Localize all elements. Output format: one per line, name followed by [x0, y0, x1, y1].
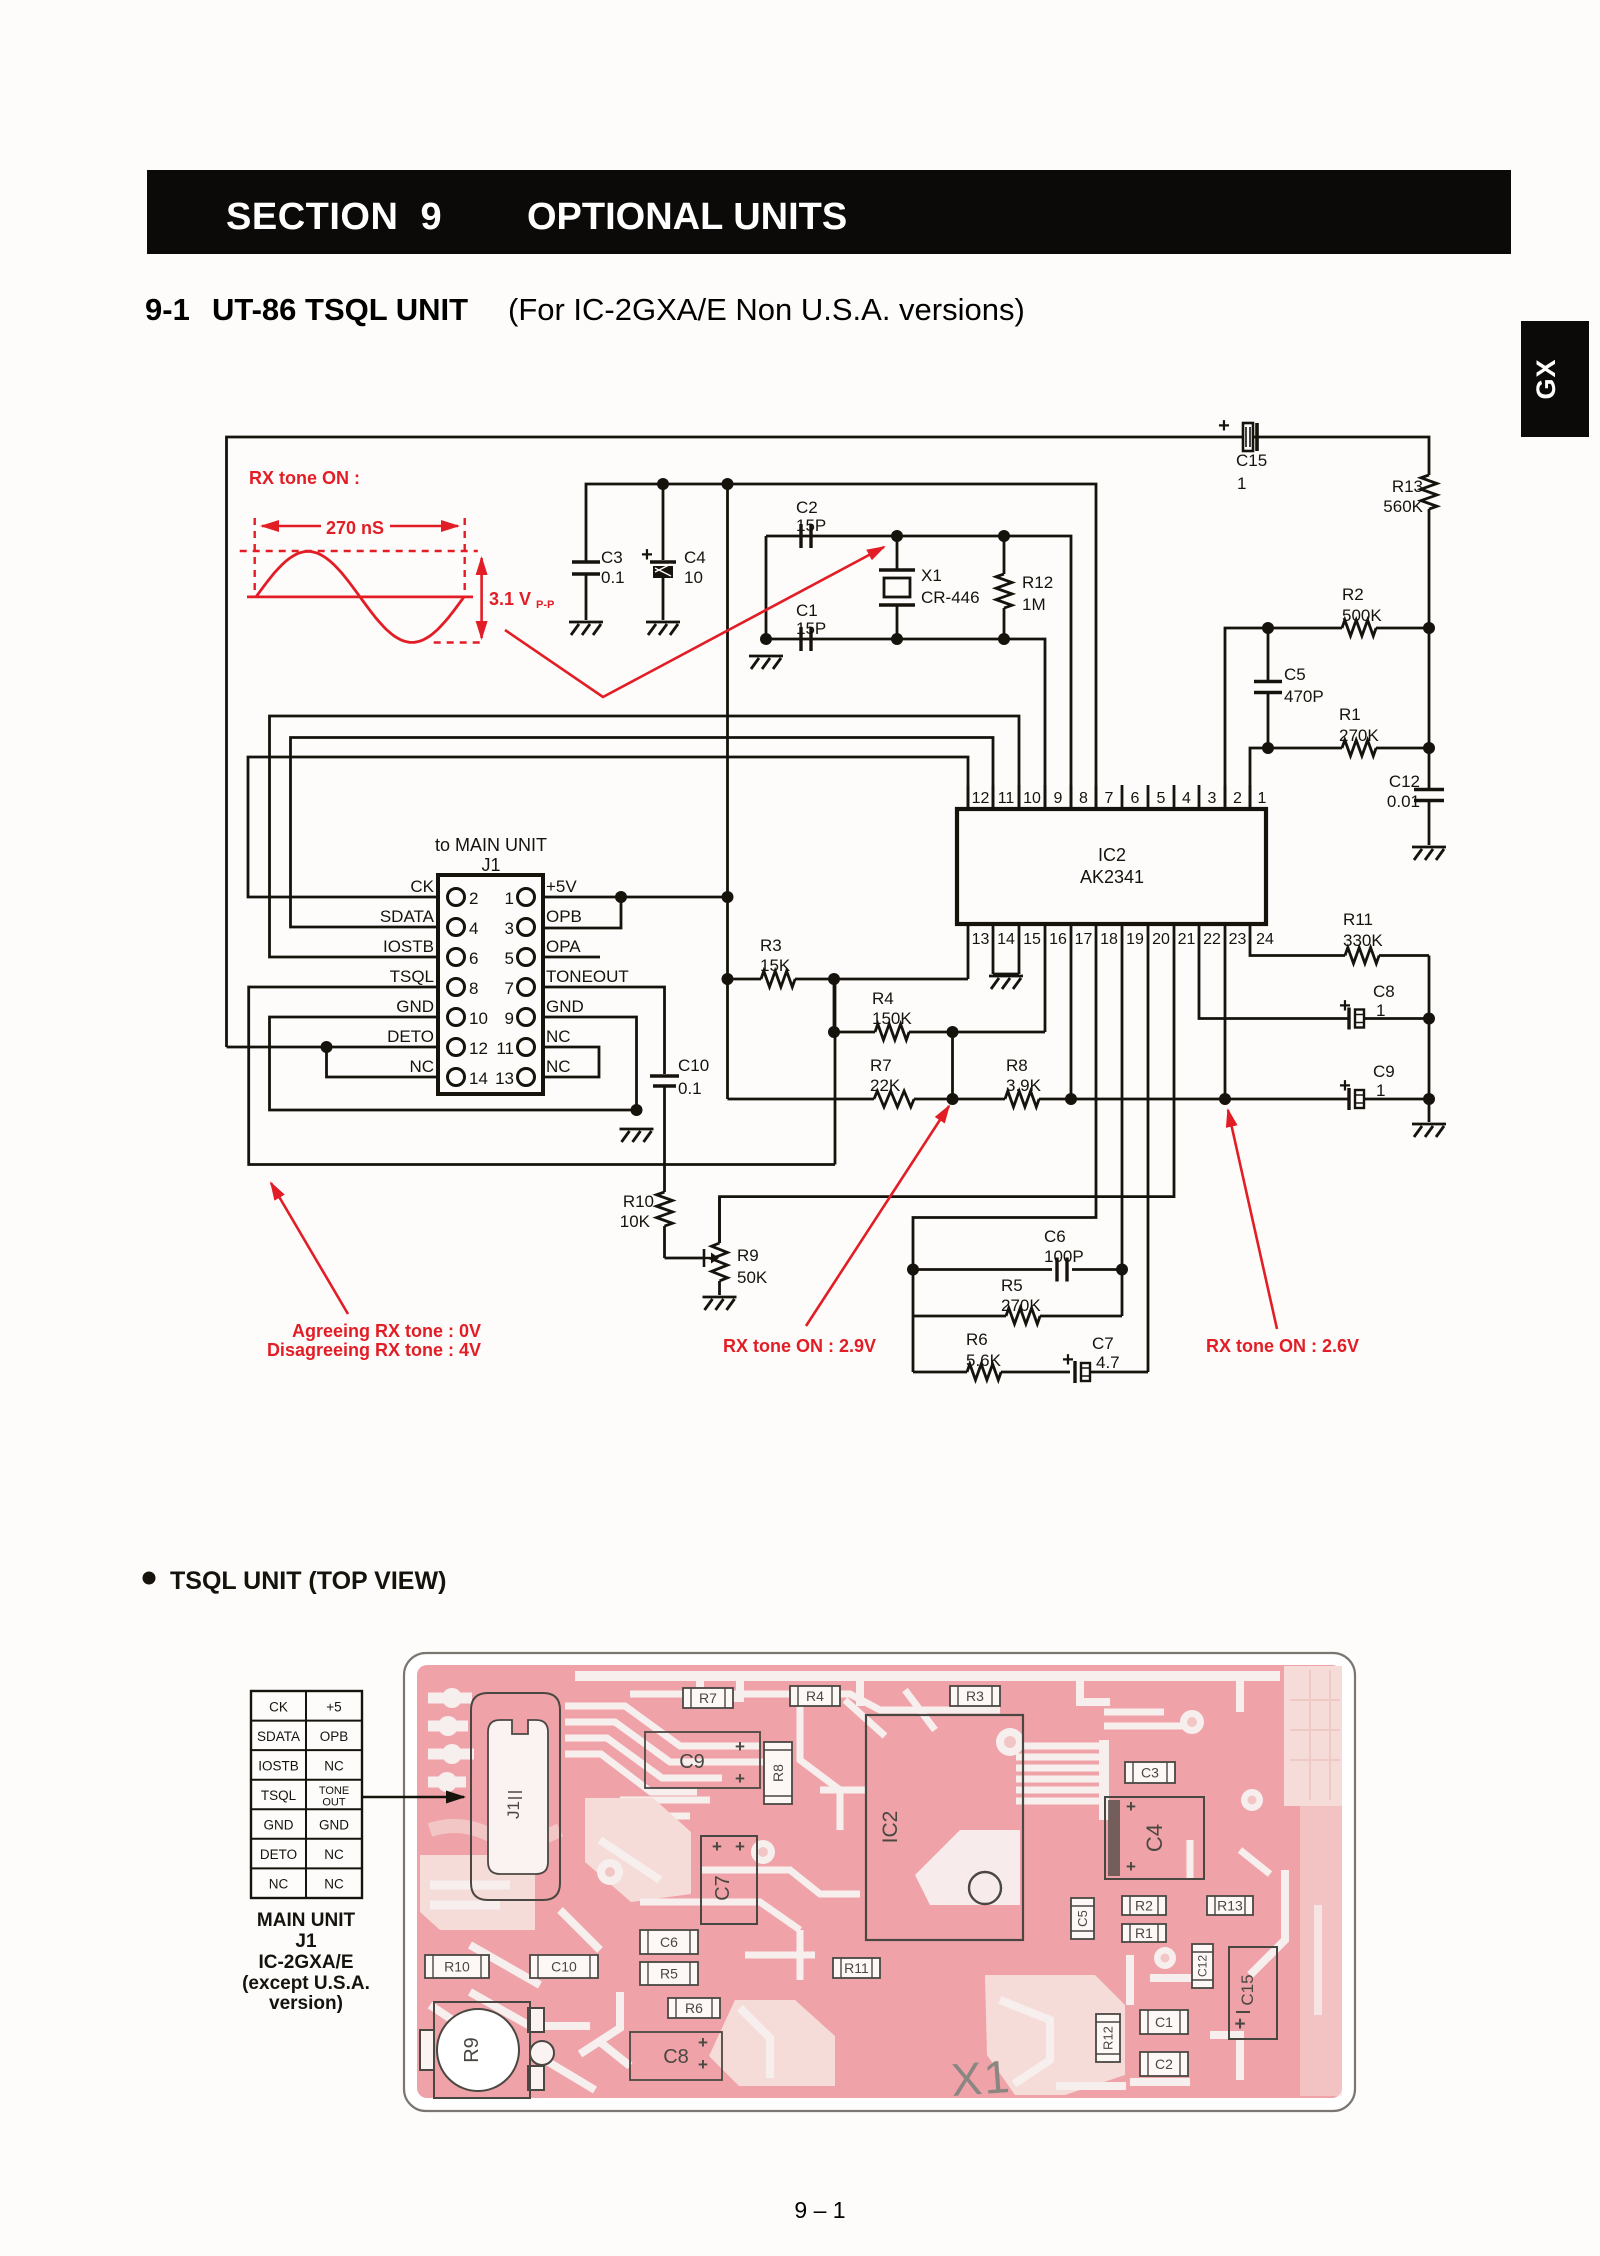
svg-text:R8: R8 — [770, 1764, 786, 1782]
capacitor C6 — [907, 1227, 1128, 1282]
IC2 pin numbers — [972, 790, 1274, 948]
wire node pin8/C2/X1/R12 — [766, 536, 1071, 809]
resistor R1 — [1339, 705, 1435, 756]
svg-text:C4: C4 — [684, 548, 706, 567]
svg-text:14: 14 — [469, 1069, 488, 1088]
svg-text:C15: C15 — [1238, 1974, 1257, 2005]
svg-text:560K: 560K — [1383, 497, 1423, 516]
svg-text:5: 5 — [505, 949, 514, 968]
svg-text:R2: R2 — [1342, 585, 1364, 604]
PCB part C3 — [1125, 1762, 1175, 1783]
capacitor C7 — [1062, 1334, 1148, 1383]
svg-text:330K: 330K — [1343, 931, 1383, 950]
svg-text:X1: X1 — [921, 566, 942, 585]
svg-text:R10: R10 — [444, 1958, 470, 1974]
ground — [749, 655, 783, 658]
connector J1 — [438, 875, 543, 1094]
PCB part R13 — [1207, 1896, 1253, 1915]
svg-text:(except U.S.A.: (except U.S.A. — [242, 1973, 370, 1994]
wire OPB bracket — [543, 897, 621, 928]
crystal X1 — [879, 530, 980, 645]
svg-text:22: 22 — [1203, 931, 1221, 948]
wire C8-C9 link — [1428, 1019, 1431, 1100]
svg-text:NC: NC — [324, 1847, 344, 1862]
wire R11 drop — [1428, 956, 1431, 1019]
svg-text:J1: J1 — [481, 855, 500, 875]
svg-text:TONEOUT: TONEOUT — [546, 967, 629, 986]
PCB part C9 — [645, 1732, 760, 1788]
svg-text:3.1 V: 3.1 V — [489, 589, 531, 609]
svg-text:TSQL UNIT (TOP VIEW): TSQL UNIT (TOP VIEW) — [170, 1567, 446, 1595]
svg-text:CK: CK — [269, 1699, 288, 1714]
svg-text:C2: C2 — [1155, 2056, 1173, 2072]
arrow to C9 node — [1228, 1110, 1277, 1329]
svg-text:GX: GX — [1531, 358, 1561, 399]
svg-text:C9: C9 — [1373, 1062, 1395, 1081]
capacitor C8 — [1199, 948, 1435, 1030]
svg-text:24: 24 — [1256, 931, 1274, 948]
pin name table — [251, 1691, 362, 1898]
svg-text:1: 1 — [1258, 790, 1267, 807]
wire node pin1/C5/R1 — [1250, 748, 1342, 809]
svg-text:0.1: 0.1 — [601, 568, 625, 587]
wire pin23 drop — [1224, 948, 1227, 1099]
svg-text:IOSTB: IOSTB — [383, 937, 434, 956]
wire +5V vertical — [726, 484, 729, 1099]
svg-text:11: 11 — [998, 790, 1015, 807]
svg-text:OUT: OUT — [322, 1797, 346, 1809]
svg-text:0.01: 0.01 — [1387, 792, 1420, 811]
svg-text:GND: GND — [264, 1818, 294, 1833]
svg-text:1: 1 — [1376, 1081, 1385, 1100]
svg-text:15P: 15P — [796, 516, 826, 535]
svg-text:7: 7 — [1105, 790, 1114, 807]
capacitor C12 — [1387, 748, 1446, 860]
wire CK loop — [248, 757, 968, 897]
svg-text:+5V: +5V — [546, 877, 577, 896]
PCB part C8 — [630, 2032, 722, 2080]
svg-text:15P: 15P — [796, 619, 826, 638]
svg-text:J1: J1 — [295, 1931, 317, 1952]
svg-text:C12: C12 — [1389, 772, 1420, 791]
svg-text:12: 12 — [972, 790, 990, 807]
svg-text:1: 1 — [505, 889, 514, 908]
wire GND left loop — [270, 1017, 637, 1110]
svg-text:9: 9 — [505, 1009, 514, 1028]
svg-text:R6: R6 — [685, 2000, 703, 2016]
PCB part R4 — [790, 1686, 840, 1706]
svg-text:7: 7 — [505, 979, 514, 998]
PCB part R11 — [833, 1958, 880, 1978]
svg-text:+: + — [1062, 1349, 1074, 1371]
svg-text:NC: NC — [324, 1758, 344, 1773]
svg-text:Disagreeing RX tone : 4V: Disagreeing RX tone : 4V — [267, 1340, 481, 1360]
wire TSQL loop — [249, 987, 835, 1165]
capacitor C1 — [796, 601, 826, 651]
svg-text:to MAIN UNIT: to MAIN UNIT — [435, 835, 547, 855]
svg-text:R1: R1 — [1135, 1925, 1153, 1941]
resistor R2 — [1342, 585, 1435, 636]
PCB connector J1 — [471, 1693, 560, 1900]
svg-text:J1: J1 — [504, 1801, 523, 1819]
svg-text:+: + — [1126, 1797, 1136, 1816]
potentiometer R9 — [665, 1197, 768, 1310]
IC2 pin leads — [968, 785, 1250, 948]
svg-text:X1: X1 — [949, 2050, 1013, 2106]
svg-text:9: 9 — [1054, 790, 1063, 807]
svg-text:23: 23 — [1229, 931, 1247, 948]
svg-text:C5: C5 — [1075, 1910, 1090, 1927]
wire +5V row — [543, 896, 728, 899]
svg-text:OPB: OPB — [320, 1729, 349, 1744]
svg-text:NC: NC — [546, 1057, 571, 1076]
svg-text:270K: 270K — [1339, 726, 1379, 745]
svg-text:9-1: 9-1 — [145, 292, 190, 327]
svg-text:R9: R9 — [737, 1246, 759, 1265]
svg-text:16: 16 — [1049, 931, 1067, 948]
PCB part C4 — [1105, 1797, 1204, 1879]
svg-text:13: 13 — [972, 931, 990, 948]
resistor R8 — [947, 1056, 1226, 1107]
svg-text:R5: R5 — [660, 1965, 678, 1981]
svg-text:R13: R13 — [1217, 1897, 1243, 1913]
wire node pin2/R2/C5 — [1225, 628, 1342, 809]
wire pin17 drop — [1070, 948, 1073, 1099]
svg-text:6: 6 — [1131, 790, 1140, 807]
page title 9-1 UT-86 TSQL UNIT — [145, 292, 1025, 327]
svg-text:19: 19 — [1126, 931, 1144, 948]
svg-text:5.6K: 5.6K — [966, 1351, 1002, 1370]
PCB part R6 — [668, 1998, 720, 2018]
PCB part C2 — [1140, 2052, 1188, 2076]
svg-text:500K: 500K — [1342, 606, 1382, 625]
sine waveform — [256, 551, 464, 642]
svg-text:NC: NC — [269, 1877, 289, 1892]
svg-text:18: 18 — [1100, 931, 1118, 948]
svg-text:13: 13 — [495, 1069, 514, 1088]
IC IC2 AK2341 — [957, 809, 1266, 924]
svg-text:+: + — [712, 1837, 722, 1856]
arrow to TSQL wire — [271, 1183, 348, 1314]
svg-text:+5: +5 — [326, 1699, 341, 1714]
PCB copper traces detail — [430, 1690, 1270, 2090]
svg-text:IC2: IC2 — [879, 1811, 902, 1844]
svg-text:R10: R10 — [623, 1192, 654, 1211]
PCB part R7 — [683, 1688, 733, 1708]
PCB part R5 — [640, 1962, 698, 1985]
dimension 270 nS — [262, 525, 321, 528]
PCB part C7 — [701, 1836, 757, 1924]
svg-text:22K: 22K — [870, 1076, 901, 1095]
svg-text:R9: R9 — [461, 2037, 483, 2063]
svg-text:C5: C5 — [1284, 665, 1306, 684]
wire pin13 riser — [967, 948, 970, 979]
PCB part R12 — [1096, 2014, 1120, 2062]
wire R4-R8 link — [951, 1032, 954, 1099]
wire — [1428, 628, 1431, 748]
svg-text:Agreeing RX tone : 0V: Agreeing RX tone : 0V — [292, 1321, 481, 1341]
svg-text:0.1: 0.1 — [678, 1079, 702, 1098]
svg-text:TSQL: TSQL — [390, 967, 434, 986]
svg-text:R11: R11 — [844, 1960, 869, 1976]
svg-text:R6: R6 — [966, 1330, 988, 1349]
svg-text:4.7: 4.7 — [1096, 1353, 1120, 1372]
svg-text:GND: GND — [546, 997, 584, 1016]
svg-text:15K: 15K — [760, 956, 791, 975]
svg-text:50K: 50K — [737, 1268, 768, 1287]
svg-text:R3: R3 — [966, 1688, 984, 1704]
svg-text:17: 17 — [1075, 931, 1093, 948]
svg-text:DETO: DETO — [260, 1847, 297, 1862]
arrow table to J1 — [362, 1796, 464, 1798]
wire pin18 drop — [913, 948, 1096, 1270]
svg-text:OPA: OPA — [546, 937, 581, 956]
wire pin14/15 ground — [992, 948, 995, 974]
svg-text:UT-86 TSQL UNIT: UT-86 TSQL UNIT — [212, 292, 468, 327]
svg-text:C6: C6 — [1044, 1227, 1066, 1246]
wire pin16 riser — [1044, 948, 1047, 1032]
wire SDATA loop — [291, 738, 994, 928]
svg-text:10: 10 — [1023, 790, 1041, 807]
svg-text:C10: C10 — [678, 1056, 709, 1075]
dashed guide lines — [253, 518, 255, 597]
PCB part C1 — [1140, 2010, 1188, 2034]
capacitor C2 — [796, 498, 826, 548]
svg-text:10: 10 — [684, 568, 703, 587]
svg-text:R11: R11 — [1343, 910, 1373, 929]
svg-text:270K: 270K — [1001, 1296, 1041, 1315]
svg-text:2: 2 — [1233, 790, 1242, 807]
svg-text:4: 4 — [469, 919, 478, 938]
svg-text:R1: R1 — [1339, 705, 1361, 724]
wire DETO row — [227, 1046, 439, 1049]
wire NC11-NC13 bracket — [543, 1047, 599, 1077]
svg-text:P-P: P-P — [536, 599, 554, 611]
svg-text:MAIN UNIT: MAIN UNIT — [257, 1910, 356, 1931]
PCB part R10 — [425, 1955, 489, 1978]
svg-text:+: + — [1234, 2014, 1245, 2035]
capacitor C15 — [1218, 415, 1267, 493]
svg-text:1M: 1M — [1022, 595, 1046, 614]
PCB part R8 — [764, 1742, 792, 1804]
capacitor C10 — [650, 1056, 709, 1192]
svg-text:C4: C4 — [1142, 1824, 1167, 1852]
svg-text:C10: C10 — [551, 1958, 577, 1974]
svg-text:R2: R2 — [1135, 1897, 1153, 1913]
svg-text:CK: CK — [410, 877, 434, 896]
svg-text:+: + — [735, 1837, 745, 1856]
svg-text:OPB: OPB — [546, 907, 582, 926]
capacitor C3 — [569, 548, 625, 635]
svg-text:(For IC-2GXA/E Non U.S.A. vers: (For IC-2GXA/E Non U.S.A. versions) — [508, 292, 1025, 327]
wire pin19 drop — [1121, 948, 1124, 1270]
svg-text:C6: C6 — [660, 1934, 678, 1950]
PCB copper traces — [420, 1666, 1342, 2096]
capacitor C9 — [1219, 1062, 1435, 1110]
svg-text:+: + — [1126, 1857, 1136, 1876]
svg-text:+: + — [698, 2055, 708, 2074]
svg-text:GND: GND — [396, 997, 434, 1016]
svg-text:1: 1 — [1237, 474, 1246, 493]
PCB section title — [143, 1572, 156, 1585]
svg-text:TSQL: TSQL — [261, 1788, 297, 1803]
wire DETO rail (left vertical and top horizontal) — [227, 437, 1430, 1047]
svg-text:+: + — [735, 1769, 745, 1788]
ground — [620, 1128, 654, 1131]
svg-text:RX tone ON :: RX tone ON : — [249, 468, 360, 488]
wire R3-R4 link — [833, 979, 836, 1032]
svg-text:C7: C7 — [712, 1875, 734, 1901]
svg-text:+: + — [641, 544, 653, 566]
resistor R13 — [1383, 475, 1437, 628]
PCB part IC2 — [866, 1715, 1023, 1940]
svg-text:3.9K: 3.9K — [1006, 1076, 1042, 1095]
svg-text:R4: R4 — [806, 1688, 824, 1704]
ground — [1428, 1099, 1431, 1122]
svg-text:C7: C7 — [1092, 1334, 1114, 1353]
svg-text:IC-2GXA/E: IC-2GXA/E — [258, 1952, 353, 1973]
svg-text:NC: NC — [546, 1027, 571, 1046]
svg-text:14: 14 — [997, 931, 1015, 948]
svg-text:C15: C15 — [1236, 451, 1267, 470]
svg-text:C8: C8 — [1373, 982, 1395, 1001]
resistor R10 — [620, 1192, 673, 1258]
svg-text:20: 20 — [1152, 931, 1170, 948]
wire GND right drop — [543, 1017, 637, 1110]
svg-text:+: + — [1339, 1075, 1351, 1097]
svg-text:9 – 1: 9 – 1 — [794, 2197, 845, 2223]
svg-text:IC2: IC2 — [1098, 845, 1126, 865]
svg-text:OPTIONAL UNITS: OPTIONAL UNITS — [527, 196, 847, 238]
svg-text:3: 3 — [1208, 790, 1217, 807]
svg-text:6: 6 — [469, 949, 478, 968]
svg-text:C1: C1 — [796, 601, 818, 620]
PCB part C12 — [1192, 1944, 1213, 1988]
svg-text:+: + — [735, 1737, 745, 1756]
PCB part C15 — [1229, 1947, 1277, 2039]
svg-text:1: 1 — [1376, 1001, 1385, 1020]
svg-text:C2: C2 — [796, 498, 818, 517]
svg-text:100P: 100P — [1044, 1247, 1084, 1266]
PCB part R9 — [420, 2002, 554, 2098]
svg-text:R12: R12 — [1022, 573, 1053, 592]
svg-text:IOSTB: IOSTB — [258, 1758, 299, 1773]
svg-text:10: 10 — [469, 1009, 488, 1028]
arrow to X1 node — [505, 547, 884, 697]
svg-text:11: 11 — [496, 1039, 514, 1058]
svg-text:15: 15 — [1023, 931, 1041, 948]
svg-text:C3: C3 — [1141, 1764, 1159, 1780]
svg-text:470P: 470P — [1284, 687, 1324, 706]
svg-text:C9: C9 — [679, 1751, 705, 1773]
svg-text:C3: C3 — [601, 548, 623, 567]
svg-text:R13: R13 — [1392, 477, 1423, 496]
svg-text:12: 12 — [469, 1039, 488, 1058]
svg-text:21: 21 — [1178, 931, 1196, 948]
dimension 3.1 Vp-p — [480, 558, 483, 598]
svg-text:5: 5 — [1157, 790, 1166, 807]
svg-text:R8: R8 — [1006, 1056, 1028, 1075]
svg-text:+: + — [1218, 415, 1230, 437]
svg-text:DETO: DETO — [387, 1027, 434, 1046]
wire node pin9/C1/X1/R12 — [766, 536, 1045, 809]
section header bar — [147, 170, 1511, 254]
svg-text:GND: GND — [319, 1818, 349, 1833]
svg-text:RX tone ON : 2.9V: RX tone ON : 2.9V — [723, 1336, 876, 1356]
wire NC pin14 bracket — [327, 1047, 439, 1077]
resistor R6 — [913, 1316, 1070, 1380]
svg-text:R4: R4 — [872, 989, 894, 1008]
resistor R3 — [722, 936, 969, 987]
PCB part C5 — [1071, 1898, 1094, 1939]
wire TONEOUT — [543, 987, 665, 1074]
wire TSQL riser to R3/R4 — [834, 979, 837, 1165]
svg-text:2: 2 — [469, 889, 478, 908]
resistor R5 — [913, 1270, 1122, 1325]
svg-text:R7: R7 — [870, 1056, 892, 1075]
svg-text:RX tone ON : 2.6V: RX tone ON : 2.6V — [1206, 1336, 1359, 1356]
PCB board outline — [404, 1653, 1355, 2111]
PCB part R2 — [1122, 1896, 1166, 1915]
svg-text:TONE: TONE — [319, 1785, 349, 1797]
svg-text:C8: C8 — [663, 2046, 689, 2068]
svg-text:8: 8 — [469, 979, 478, 998]
svg-text:10K: 10K — [620, 1212, 651, 1231]
wire OPA stub — [543, 956, 600, 959]
wire pin20 drop — [1147, 948, 1150, 1372]
PCB part R1 — [1122, 1924, 1166, 1942]
svg-text:NC: NC — [409, 1057, 434, 1076]
svg-text:8: 8 — [1079, 790, 1088, 807]
svg-text:270 nS: 270 nS — [326, 518, 384, 538]
svg-text:SECTION 9: SECTION 9 — [226, 196, 442, 238]
wire +5V rail — [586, 484, 1096, 809]
capacitor C5 — [1254, 622, 1324, 748]
svg-text:C1: C1 — [1155, 2014, 1173, 2030]
svg-text:SDATA: SDATA — [257, 1729, 300, 1744]
resistor R11 — [1250, 910, 1429, 964]
arrow to R7/R8 node — [806, 1106, 949, 1326]
svg-text:R5: R5 — [1001, 1276, 1023, 1295]
svg-text:+: + — [698, 2033, 708, 2052]
svg-text:3: 3 — [505, 919, 514, 938]
svg-text:R7: R7 — [699, 1690, 717, 1706]
svg-text:4: 4 — [1182, 790, 1191, 807]
svg-text:+: + — [1339, 995, 1351, 1017]
resistor R4 — [834, 989, 1045, 1040]
svg-text:R12: R12 — [1101, 2026, 1116, 2050]
PCB part C10 — [530, 1955, 598, 1978]
svg-text:SDATA: SDATA — [380, 907, 435, 926]
capacitor C4 — [641, 478, 706, 635]
svg-text:150K: 150K — [872, 1009, 912, 1028]
wire IOSTB loop — [270, 716, 1020, 957]
wire pin21 drop — [720, 948, 1175, 1243]
resistor R12 — [996, 530, 1053, 645]
svg-text:R3: R3 — [760, 936, 782, 955]
PCB part R3 — [950, 1686, 1000, 1706]
resistor R7 — [728, 1056, 953, 1107]
GX side tab — [1521, 321, 1589, 437]
svg-text:CR-446: CR-446 — [921, 588, 980, 607]
PCB part C6 — [640, 1930, 698, 1954]
svg-text:version): version) — [269, 1993, 343, 2014]
svg-text:AK2341: AK2341 — [1080, 867, 1144, 887]
svg-text:C12: C12 — [1196, 1955, 1210, 1977]
svg-text:NC: NC — [324, 1877, 344, 1892]
